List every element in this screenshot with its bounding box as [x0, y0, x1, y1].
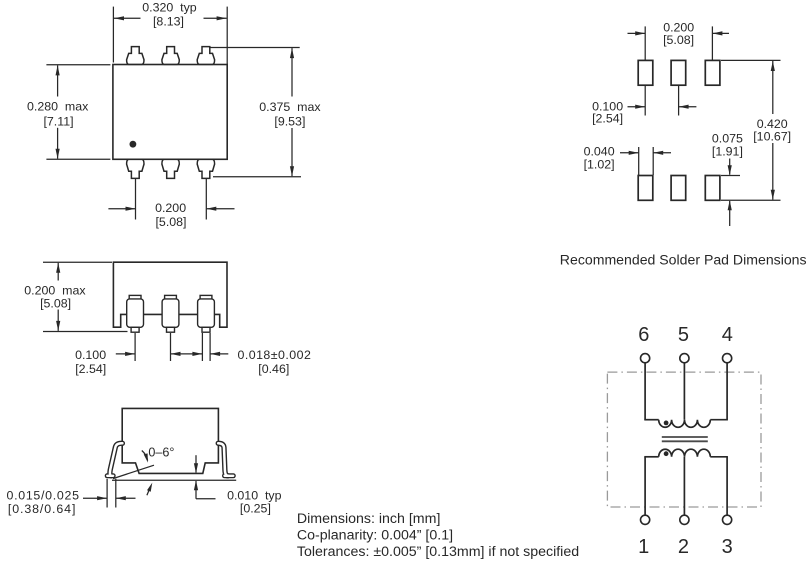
- svg-text:[2.54]: [2.54]: [592, 112, 623, 126]
- solder pad for pin 1: [638, 176, 653, 201]
- lead 2 (side view): [165, 295, 177, 299]
- wire pin 3 to secondary: [710, 456, 728, 458]
- wire pin 6 to primary: [644, 363, 646, 420]
- solder pad for pin 6: [638, 60, 653, 85]
- svg-text:Dimensions: inch [mm]: Dimensions: inch [mm]: [297, 511, 441, 527]
- dimension 0.040 [1.02] pad width: [638, 147, 640, 175]
- dimension 0.375 max [9.53] overall length: [209, 47, 300, 49]
- pin 6 lead (top view, upper-left): [127, 47, 144, 65]
- pin 4 lead (top view, upper-right): [197, 47, 214, 65]
- svg-text:0.018±0.002: 0.018±0.002: [238, 348, 312, 362]
- package body top view: [113, 65, 227, 160]
- dimension 0.280 max [7.11] body depth: [46, 64, 110, 66]
- lead angle 0-6 degrees annotation: [142, 451, 148, 461]
- svg-text:0.015/0.025: 0.015/0.025: [7, 488, 80, 502]
- pin 1 terminal: [641, 515, 650, 524]
- svg-text:0.040: 0.040: [584, 144, 615, 158]
- svg-text:[5.08]: [5.08]: [40, 297, 71, 311]
- dimension 0.100 [2.54] lead pitch: [134, 333, 136, 361]
- pin 4 terminal: [723, 354, 732, 363]
- angle leader arrow to seating plane: [147, 486, 151, 495]
- pin 3 terminal: [723, 515, 732, 524]
- solder pad for pin 2: [671, 176, 686, 201]
- solder pad for pin 3: [705, 176, 720, 201]
- component outline dash-dot box: [607, 372, 761, 507]
- dimension 0.075 [1.91] pad height: [721, 175, 740, 177]
- pin 2 terminal: [680, 515, 689, 524]
- dimension 0.010 typ [0.25] standoff: [195, 455, 197, 472]
- svg-text:[7.11]: [7.11]: [43, 114, 73, 128]
- svg-text:[2.54]: [2.54]: [75, 362, 106, 376]
- dimension 0.200 [5.08] pin span: [135, 179, 137, 220]
- svg-text:[1.91]: [1.91]: [712, 144, 743, 158]
- svg-text:0.200: 0.200: [155, 201, 186, 215]
- svg-text:Tolerances: ±0.005” [0.13mm] i: Tolerances: ±0.005” [0.13mm] if not spec…: [297, 544, 579, 560]
- package body side view with corner standoffs: [113, 262, 227, 327]
- wire pin 1 to secondary: [644, 456, 658, 458]
- lead 3 (side view): [200, 295, 212, 299]
- primary polarity dot: [664, 421, 669, 426]
- svg-text:[0.25]: [0.25]: [240, 502, 271, 516]
- svg-text:0.320 typ: 0.320 typ: [142, 1, 197, 15]
- secondary polarity dot: [664, 451, 669, 456]
- dimension 0.015/0.025 [0.38/0.64] foot length: [106, 479, 108, 508]
- wire pin 4 to primary: [726, 363, 728, 420]
- svg-text:Co-planarity: 0.004” [0.1]: Co-planarity: 0.004” [0.1]: [297, 528, 453, 544]
- pin 3 lead (top view, lower-right): [197, 159, 214, 178]
- svg-text:[8.13]: [8.13]: [153, 15, 184, 29]
- dimension 0.420 [10.67] pad field height: [721, 59, 781, 61]
- solder pad for pin 4: [705, 60, 720, 85]
- dimension 0.200 max [5.08] height: [43, 261, 112, 263]
- left gull-wing lead: [110, 443, 122, 476]
- transformer core: [662, 436, 708, 438]
- dimension 0.018±0.002 [0.46] lead thickness: [201, 333, 203, 361]
- svg-text:[10.67]: [10.67]: [753, 130, 791, 144]
- wire pin 5 center tap: [683, 363, 685, 420]
- right gull-wing lead: [218, 443, 228, 476]
- svg-text:[0.46]: [0.46]: [258, 362, 289, 376]
- svg-text:0.100: 0.100: [75, 348, 106, 362]
- pin 1 index dot: [130, 141, 137, 148]
- svg-text:2: 2: [678, 536, 689, 558]
- svg-text:6: 6: [638, 324, 649, 346]
- secondary winding: [659, 449, 711, 457]
- lead angle reference line: [113, 465, 154, 478]
- svg-text:Recommended Solder Pad Dimensi: Recommended Solder Pad Dimensions: [560, 252, 807, 268]
- svg-text:0.280 max: 0.280 max: [27, 100, 89, 114]
- svg-text:4: 4: [722, 324, 733, 346]
- svg-text:[5.08]: [5.08]: [663, 33, 694, 47]
- pin 6 terminal: [641, 354, 650, 363]
- svg-text:0.375 max: 0.375 max: [259, 100, 321, 114]
- svg-text:0–6°: 0–6°: [148, 445, 174, 459]
- svg-text:0.010 typ: 0.010 typ: [227, 489, 282, 503]
- dimension 0.100 [2.54] pad pitch: [644, 86, 646, 116]
- pin 2 lead (top view, lower-middle): [162, 159, 179, 178]
- svg-text:[5.08]: [5.08]: [155, 215, 186, 229]
- svg-text:[9.53]: [9.53]: [274, 114, 305, 128]
- primary winding: [659, 420, 711, 428]
- seating plane line: [112, 479, 236, 481]
- svg-text:3: 3: [722, 536, 733, 558]
- svg-text:0.200: 0.200: [663, 20, 694, 34]
- lead 1 (side view): [129, 295, 141, 299]
- solder pad for pin 5: [671, 60, 686, 85]
- svg-text:5: 5: [678, 324, 689, 346]
- svg-text:[1.02]: [1.02]: [584, 157, 615, 171]
- svg-text:0.200 max: 0.200 max: [24, 283, 86, 297]
- svg-text:1: 1: [638, 536, 649, 558]
- pin 1 lead (top view, lower-left): [127, 159, 144, 178]
- svg-text:[0.38/0.64]: [0.38/0.64]: [8, 502, 76, 516]
- pin 5 terminal: [680, 354, 689, 363]
- dimension 0.320 typ [8.13] body width: [112, 7, 114, 63]
- pin 5 lead (top view, upper-middle): [162, 47, 179, 65]
- dimension 0.200 [5.08] pad span: [644, 26, 646, 60]
- wire pin 2 center tap: [683, 457, 685, 515]
- package body end view: [122, 408, 218, 473]
